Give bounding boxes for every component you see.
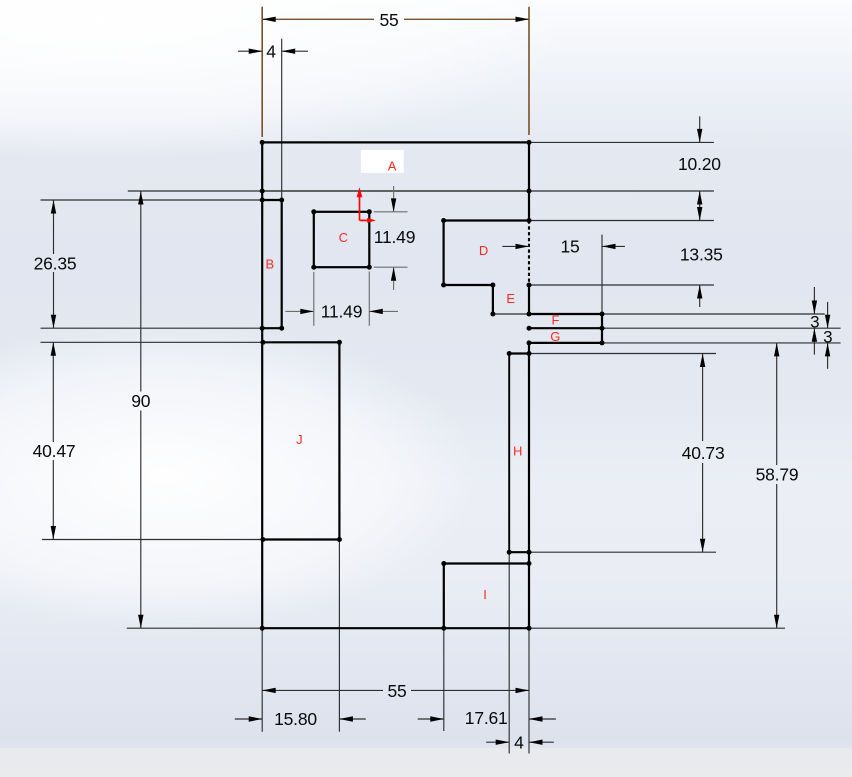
extension line: J right down (15.80 dim): [338, 540, 340, 732]
svg-text:10.20: 10.20: [678, 154, 721, 174]
extension line: main left corner up (55 dim, brown): [261, 7, 263, 137]
svg-text:40.47: 40.47: [33, 441, 76, 461]
extension line: bottom edge to right: [529, 627, 785, 629]
dimension 17.61: [418, 708, 556, 728]
svg-text:26.35: 26.35: [34, 253, 77, 273]
rectangle I left: [443, 564, 445, 629]
tab F bottom / G top: [529, 327, 602, 329]
extension line: top edge to right: [529, 141, 714, 143]
svg-text:58.79: 58.79: [756, 465, 799, 485]
extension line: F right corner up (15 dim): [601, 235, 603, 314]
segment D right edge (dashed): [528, 221, 530, 286]
rectangle D left: [443, 221, 445, 286]
rectangle H top: [509, 352, 529, 354]
extension line: H left down (4 dim): [508, 552, 510, 753]
svg-text:3: 3: [810, 313, 819, 332]
extension line: D top to right: [529, 220, 714, 222]
dimension 4 bottom: [486, 732, 554, 752]
main outline right edge lower segment: [528, 343, 530, 628]
extension line: B right top (4 dim): [281, 39, 283, 200]
tab F top: [529, 313, 602, 315]
dimension 40.73: [682, 354, 725, 553]
dimension 15.80: [235, 709, 366, 729]
rectangle E bottom (thin): [493, 313, 529, 315]
tab F right: [601, 314, 603, 328]
extension line: left of J top: [41, 341, 263, 343]
svg-text:H: H: [513, 444, 522, 459]
extension line: C bottom-right down: [368, 272, 370, 326]
svg-text:A: A: [388, 158, 397, 173]
extension line: D bottom to right: [529, 284, 714, 286]
extension line: H bottom to right: [529, 551, 716, 553]
label A highlight box: [361, 150, 404, 173]
dimension 3 upper (tab F): [810, 287, 819, 355]
svg-text:40.73: 40.73: [682, 443, 725, 463]
rectangle B top: [262, 199, 282, 201]
extension line: bottom edge to left: [127, 627, 262, 629]
sketch origin (red arrows): [360, 197, 368, 221]
dimension 11.49 horizontal (C width): [285, 302, 398, 322]
extension line: C bottom-left down: [313, 272, 315, 326]
extension line: C top-right to right: [374, 211, 408, 213]
rectangle H bottom: [509, 551, 529, 553]
svg-text:3: 3: [823, 327, 832, 346]
construction line across at y=191 (90 dim top): [128, 190, 714, 192]
extension line: H top to right: [529, 353, 716, 355]
extension line: right edge down below bottom: [528, 628, 530, 753]
extension line: F top to right: [602, 313, 825, 315]
main outline left edge: [261, 142, 263, 628]
extension line: left of B top: [41, 199, 263, 201]
rectangle D bottom: [444, 284, 493, 286]
svg-text:J: J: [296, 432, 302, 447]
dimension 11.49 vertical (C height): [374, 186, 416, 290]
svg-text:C: C: [339, 230, 348, 245]
dimension 55 top: [262, 10, 529, 30]
extension line: left of J bottom: [42, 539, 263, 541]
dimension 3 lower (tab G): [823, 302, 832, 369]
svg-text:17.61: 17.61: [465, 708, 508, 728]
dimension 26.35: [34, 200, 77, 328]
svg-text:B: B: [265, 256, 273, 271]
rectangle J right: [338, 342, 340, 539]
dimension 55 bottom: [262, 681, 529, 701]
rectangle J bottom: [263, 538, 340, 540]
svg-text:F: F: [552, 313, 560, 328]
dimension 4 top: [238, 42, 308, 62]
extension line: G bottom to right: [602, 342, 841, 344]
tab G right: [601, 328, 603, 343]
dimension 13.35: [680, 205, 723, 307]
extension line: F bottom to right: [602, 327, 841, 329]
svg-text:11.49: 11.49: [321, 302, 363, 322]
dimension 58.79: [756, 343, 799, 628]
svg-text:90: 90: [131, 391, 151, 411]
svg-text:E: E: [506, 291, 515, 306]
svg-text:55: 55: [387, 681, 406, 701]
svg-text:G: G: [550, 329, 560, 344]
rectangle B right: [281, 200, 283, 328]
rectangle C: [314, 212, 370, 267]
svg-text:I: I: [483, 587, 486, 602]
extension line: main right corner up (55 dim, brown): [528, 7, 530, 135]
extension line: I left down (17.61 dim): [443, 628, 445, 731]
dimension 90: [131, 191, 151, 628]
extension line: left edge down below bottom: [261, 628, 263, 732]
dimension 10.20: [678, 116, 721, 211]
segment E right edge: [528, 285, 530, 314]
svg-text:4: 4: [266, 42, 276, 62]
main outline right edge upper segment: [528, 142, 530, 220]
svg-text:15.80: 15.80: [274, 709, 317, 729]
tab G bottom: [529, 342, 602, 344]
svg-text:D: D: [479, 243, 488, 258]
segment A construction line (node A): [262, 190, 529, 192]
extension line: left of B bottom: [41, 327, 263, 329]
rectangle J top: [263, 341, 340, 343]
extension line: C bottom-right to right: [374, 266, 408, 268]
main outline top edge: [262, 141, 529, 143]
main outline bottom edge: [262, 627, 529, 629]
rectangle E left: [492, 285, 494, 314]
dimension 15 (tab length): [502, 237, 625, 257]
svg-text:15: 15: [560, 237, 579, 257]
svg-text:4: 4: [514, 732, 524, 752]
rectangle H left: [508, 354, 510, 553]
svg-text:55: 55: [379, 10, 398, 30]
dimension 40.47: [33, 342, 76, 539]
rectangle I top: [444, 562, 529, 564]
svg-text:11.49: 11.49: [374, 227, 416, 247]
rectangle B bottom: [262, 327, 282, 329]
vertex dots: [260, 140, 605, 631]
svg-text:13.35: 13.35: [680, 245, 723, 265]
rectangle D top: [444, 219, 529, 221]
